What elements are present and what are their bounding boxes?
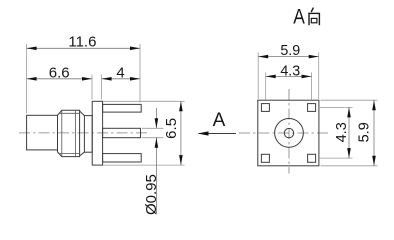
side view centerline xyxy=(19,132,149,134)
svg-text:A: A xyxy=(213,110,226,131)
dimension 4.3 top xyxy=(266,63,312,79)
front view horizontal centerline xyxy=(239,132,328,134)
svg-text:4: 4 xyxy=(116,65,124,82)
dimension 5.9 top xyxy=(258,43,319,59)
top mounting leg (side view) xyxy=(103,104,142,112)
view label A with arrow xyxy=(198,110,237,136)
svg-text:11.6: 11.6 xyxy=(68,33,96,50)
dimension Ø0.95 xyxy=(143,108,160,215)
front view body square xyxy=(258,100,319,166)
svg-text:6.6: 6.6 xyxy=(49,65,70,82)
front view vertical centerline xyxy=(288,89,290,174)
center hole circle (front view) xyxy=(284,128,293,137)
dimension 4.3 right xyxy=(334,107,351,158)
svg-text:4.3: 4.3 xyxy=(280,63,300,79)
dimension 5.9 right xyxy=(357,100,376,166)
dimension 4 xyxy=(102,65,140,82)
dimension 6.5 xyxy=(163,101,183,165)
corner leg top-right (front view) xyxy=(308,104,316,112)
svg-text:6.5: 6.5 xyxy=(163,118,180,139)
title A向 xyxy=(293,6,319,29)
extension lines, front view top dims xyxy=(258,53,319,100)
svg-text:Ø0.95: Ø0.95 xyxy=(143,174,160,215)
mounting flange (side view) xyxy=(92,101,102,165)
neck / step between nut and flange (side view) xyxy=(80,111,93,156)
dimension 6.6 xyxy=(27,65,92,82)
svg-text:A: A xyxy=(293,6,305,29)
corner leg bottom-left (front view) xyxy=(261,154,269,162)
dimension 11.6 xyxy=(27,33,140,50)
extension lines, side view top dims xyxy=(27,44,140,114)
svg-text:4.3: 4.3 xyxy=(334,122,350,142)
svg-text:5.9: 5.9 xyxy=(280,43,300,59)
outer circle (front view) xyxy=(275,119,304,148)
bottom mounting leg (side view) xyxy=(103,154,142,162)
svg-text:5.9: 5.9 xyxy=(357,122,373,142)
corner leg top-left (front view) xyxy=(261,104,269,112)
connector barrel (side view) xyxy=(27,115,58,150)
corner leg bottom-right (front view) xyxy=(308,154,316,162)
hex nut (side view) xyxy=(58,110,80,156)
extension lines, dimension Ø0.95 xyxy=(142,128,164,137)
center pin (side view) xyxy=(103,128,141,137)
extension lines, front view right dims xyxy=(318,100,378,166)
extension lines, dimension 6.5 xyxy=(103,101,185,165)
